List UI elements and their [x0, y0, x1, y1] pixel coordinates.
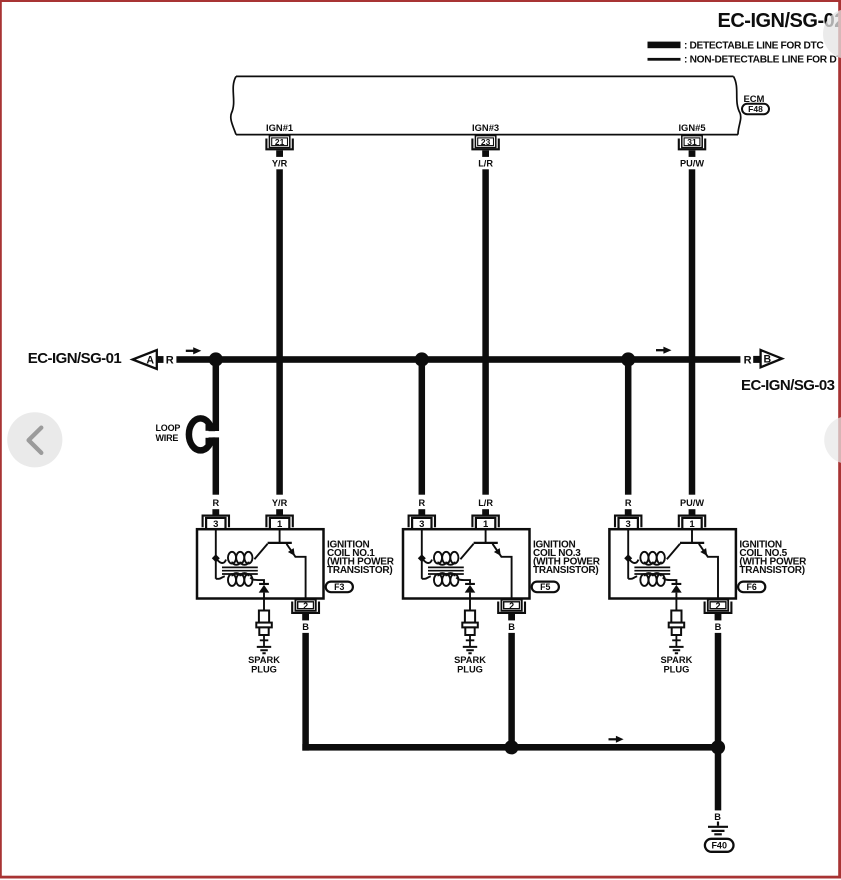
coil no.3 pin 1 stub	[482, 509, 489, 514]
ignition coil no.5 box	[609, 529, 736, 598]
svg-text:EC-IGN/SG-02: EC-IGN/SG-02	[718, 10, 841, 32]
loop wire symbol	[189, 418, 212, 450]
primary winding L3a	[422, 558, 432, 563]
svg-text:PU/W: PU/W	[680, 158, 704, 168]
svg-text:PLUG: PLUG	[251, 664, 277, 674]
secondary winding L3b	[422, 576, 431, 579]
svg-text:IGN#5: IGN#5	[678, 122, 705, 133]
svg-text:R: R	[418, 498, 425, 508]
ECM terminal 23	[475, 136, 495, 148]
svg-text:B: B	[715, 622, 722, 632]
terminal 31 bracket	[679, 139, 705, 150]
svg-text:L/R: L/R	[478, 158, 493, 168]
svg-text:R: R	[625, 498, 632, 508]
svg-text:21: 21	[275, 137, 285, 147]
coil no.3 internal wire from pin 3	[421, 530, 423, 579]
red page border top	[0, 0, 841, 2]
svg-text:TRANSISTOR): TRANSISTOR)	[327, 565, 392, 576]
svg-text:F3: F3	[334, 582, 344, 592]
spark plug no.5 ground electrode	[669, 647, 683, 653]
coil no.3 pin 1 terminal box	[476, 518, 495, 530]
spark plug no.3 lead	[469, 598, 471, 611]
svg-text:B: B	[508, 622, 515, 632]
connector arrow B (to EC-IGN/SG-03)	[761, 350, 782, 367]
svg-text:23: 23	[481, 137, 491, 147]
svg-text:TRANSISTOR): TRANSISTOR)	[739, 565, 804, 576]
svg-text:B: B	[763, 354, 771, 366]
bottom bus junction node (coil 5)	[711, 740, 725, 754]
bottom bus junction node (coil 3)	[504, 740, 518, 754]
coil no.3 pin 2 terminal	[501, 600, 521, 611]
svg-text:2: 2	[715, 601, 720, 611]
power transistor base wire (pin 1) coil no.3	[485, 530, 487, 543]
svg-text:L/R: L/R	[478, 498, 493, 508]
main bus wire R (horizontal, detectable)	[176, 356, 740, 363]
wire L/R vertical (ECM to coil no.3 pin 1)	[482, 169, 489, 494]
svg-text:R: R	[212, 498, 219, 508]
wire stub below terminal 31	[689, 151, 696, 157]
svg-text:WIRE: WIRE	[156, 433, 179, 443]
svg-text:EC-IGN/SG-03: EC-IGN/SG-03	[741, 377, 835, 394]
primary winding L5a	[628, 558, 638, 563]
wire stub below terminal 23	[482, 151, 489, 157]
transformer core lines coil no.5	[634, 567, 670, 574]
coil no.1 pin 1 stub	[276, 509, 283, 514]
secondary diode coil no.3	[465, 583, 475, 585]
spark plug no.1	[259, 611, 269, 623]
transistor emitter lead with arrow	[699, 544, 718, 598]
wire R drop to coil no.3	[419, 356, 426, 495]
svg-text:PLUG: PLUG	[663, 664, 689, 674]
junction node inside coil no.5	[624, 554, 632, 562]
svg-text:2: 2	[509, 601, 514, 611]
coil no.1 connector F3	[326, 582, 353, 593]
secondary winding L1b	[216, 576, 225, 579]
coil no.3 pin 1 bracket	[472, 516, 498, 528]
coil no.1 pin 3 terminal box	[206, 518, 225, 530]
svg-text:F40: F40	[711, 841, 727, 851]
wire PU/W vertical (ECM to coil no.5 pin 1)	[689, 169, 696, 494]
coil no.5 pin 3 stub	[625, 509, 632, 514]
secondary diode coil no.5	[672, 583, 682, 585]
power transistor base wire (pin 1) coil no.1	[279, 530, 281, 543]
svg-text:SPARK: SPARK	[248, 655, 280, 665]
svg-text:LOOP: LOOP	[156, 423, 181, 433]
bus junction node	[209, 352, 223, 366]
svg-text:Y/R: Y/R	[272, 498, 288, 508]
pin 2 bracket	[705, 602, 732, 613]
coil no.3 connector F5	[532, 582, 559, 593]
svg-text:B: B	[714, 812, 721, 822]
coil no.1 pin 2 terminal	[295, 600, 315, 611]
power transistor Q5 base bar	[680, 542, 704, 544]
svg-text:: NON-DETECTABLE LINE FOR DTC: : NON-DETECTABLE LINE FOR DTC	[684, 55, 841, 66]
wire R drop to coil no.1 (upper, with loop)	[213, 356, 220, 431]
flow arrow on bus (right)	[656, 349, 664, 351]
spark plug no.5 lead	[675, 598, 677, 611]
transistor collector lead to primary winding	[254, 544, 267, 559]
transformer core lines coil no.1	[222, 567, 258, 574]
coil no.5 pin 2 terminal	[708, 600, 728, 611]
coil no.1 pin 3 bracket	[203, 516, 229, 528]
coil no.1 pin 1 terminal box	[270, 518, 289, 530]
svg-text:F6: F6	[747, 582, 757, 592]
wire B from coil no.1 pin 2	[302, 633, 309, 751]
spark plug no.5	[671, 611, 681, 623]
wire R drop to coil no.1 (lower)	[213, 437, 220, 494]
transistor emitter lead with arrow	[493, 544, 512, 598]
spark plug no.3	[465, 611, 475, 623]
svg-text:31: 31	[687, 137, 697, 147]
next-page nav button overlay (top right)	[823, 9, 841, 59]
svg-text:IGN#3: IGN#3	[472, 122, 499, 133]
flow arrow on bottom bus	[609, 738, 617, 740]
pin 2 stub	[302, 614, 309, 620]
red page border bottom	[0, 876, 841, 879]
legend thick bar (detectable line)	[648, 42, 681, 49]
terminal 21 bracket	[266, 139, 292, 150]
coil no.1 pin 1 bracket	[266, 516, 292, 528]
ignition coil no.1 box	[197, 529, 324, 598]
power transistor Q3 base bar	[474, 542, 498, 544]
flow arrow on bus (left)	[186, 350, 194, 352]
wire B from coil no.5 pin 2 to ground	[715, 633, 722, 811]
junction node inside coil no.1	[212, 554, 220, 562]
svg-text:PU/W: PU/W	[680, 498, 704, 508]
svg-text:R: R	[744, 354, 752, 366]
svg-text:B: B	[302, 622, 309, 632]
spark plug no.1 lead	[263, 598, 265, 611]
pin 2 bracket	[292, 602, 319, 613]
coil no.5 internal wire from pin 3	[627, 530, 629, 579]
wire B from coil no.3 pin 2	[508, 633, 514, 744]
next-page nav button (right edge, faint)	[824, 416, 841, 464]
power transistor base wire (pin 1) coil no.5	[691, 530, 693, 543]
bus junction node	[415, 352, 429, 366]
svg-text:IGN#1: IGN#1	[266, 122, 293, 133]
coil no.5 pin 1 terminal box	[682, 518, 701, 530]
junction node inside coil no.3	[418, 554, 426, 562]
coil no.3 pin 3 bracket	[409, 516, 435, 528]
ECM block outline	[236, 75, 734, 77]
pin 2 bracket	[498, 602, 525, 613]
coil no.5 pin 1 stub	[689, 509, 696, 514]
ECM connector F48	[742, 104, 769, 114]
transistor emitter lead with arrow	[287, 544, 306, 598]
svg-text:: DETECTABLE LINE FOR DTC: : DETECTABLE LINE FOR DTC	[684, 41, 824, 52]
svg-text:Y/R: Y/R	[272, 158, 288, 168]
red page border left	[0, 0, 2, 879]
ground connector F40	[705, 839, 734, 852]
transistor collector lead to primary winding	[460, 544, 473, 559]
ignition coil no.3 box	[403, 529, 530, 598]
power transistor Q1 base bar	[268, 542, 292, 544]
ECM terminal 21	[269, 136, 289, 148]
svg-text:A: A	[146, 354, 154, 366]
svg-text:F48: F48	[748, 104, 763, 114]
coil no.5 connector F6	[738, 582, 765, 593]
secondary diode coil no.1	[259, 583, 269, 585]
wire stub below terminal 21	[276, 151, 283, 157]
legend thin bar (non-detectable line)	[648, 58, 681, 61]
primary winding L1a	[216, 558, 226, 563]
bus junction node	[621, 352, 635, 366]
svg-text:F5: F5	[540, 582, 550, 592]
spark plug no.3 ground electrode	[463, 647, 477, 653]
wire Y/R vertical (ECM to coil no.1 pin 1)	[276, 169, 283, 494]
previous-page nav button	[7, 412, 62, 467]
ground symbol	[708, 822, 728, 835]
transistor collector lead to primary winding	[667, 544, 680, 559]
svg-text:EC-IGN/SG-01: EC-IGN/SG-01	[28, 350, 122, 367]
coil no.1 internal wire from pin 3	[215, 530, 217, 579]
coil no.3 pin 3 stub	[418, 509, 425, 514]
transformer core lines coil no.3	[428, 567, 464, 574]
terminal 23 bracket	[472, 139, 498, 150]
pin 2 stub	[508, 614, 515, 620]
svg-text:SPARK: SPARK	[660, 655, 692, 665]
wire R drop to coil no.5	[625, 356, 632, 495]
coil no.5 pin 1 bracket	[679, 516, 705, 528]
coil no.5 pin 3 terminal box	[619, 518, 638, 530]
ECM terminal 31	[682, 136, 702, 148]
pin 2 stub	[715, 614, 722, 620]
svg-text:2: 2	[303, 601, 308, 611]
red page border right	[838, 0, 841, 879]
svg-text:PLUG: PLUG	[457, 664, 483, 674]
coil no.3 pin 3 terminal box	[412, 518, 431, 530]
coil no.5 pin 3 bracket	[615, 516, 641, 528]
coil no.1 pin 3 stub	[212, 509, 219, 514]
svg-text:R: R	[166, 354, 174, 366]
bottom bus wire B	[302, 744, 718, 751]
spark plug no.1 ground electrode	[257, 647, 271, 653]
svg-text:SPARK: SPARK	[454, 655, 486, 665]
svg-text:TRANSISTOR): TRANSISTOR)	[533, 565, 598, 576]
connector arrow A (to EC-IGN/SG-01)	[133, 350, 157, 369]
secondary winding L5b	[628, 576, 637, 579]
